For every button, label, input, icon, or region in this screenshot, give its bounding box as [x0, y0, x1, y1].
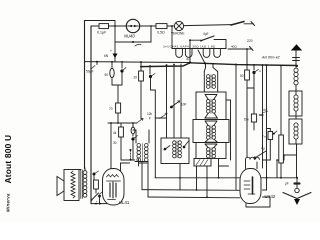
wire x281 bus down	[280, 66, 282, 135]
switch S1 mains	[231, 22, 255, 26]
wire right vertical of top box	[114, 21, 116, 63]
osc coil above IF box	[204, 64, 217, 92]
svg-text:UL41: UL41	[119, 200, 130, 205]
wire x142 from tube area	[130, 159, 135, 161]
speaker LS1	[57, 170, 79, 201]
bracket right of hatched block	[219, 159, 229, 167]
svg-text:0,1µF: 0,1µF	[97, 30, 107, 34]
bus right horizontal	[190, 63, 297, 66]
resistor R5 on x141	[134, 67, 144, 119]
wire top row y26	[91, 25, 127, 27]
tube V1 output UL41	[103, 169, 130, 206]
osc trimmer left	[164, 146, 170, 151]
earth symbol	[283, 193, 311, 206]
wire switch to corner	[190, 40, 226, 49]
rail B y189.5	[142, 162, 240, 191]
label 4n	[262, 108, 268, 113]
capacitor C1 electrolytic on x115	[104, 49, 118, 58]
wire outer top horizontal	[85, 20, 116, 22]
svg-text:σ: σ	[259, 69, 261, 73]
wire x174 bus to osc box	[173, 65, 175, 139]
wire y166	[135, 161, 148, 163]
svg-text:μF: μF	[285, 182, 289, 186]
svg-text:40Ω: 40Ω	[231, 45, 237, 49]
detector arrow above tube 2	[254, 147, 266, 160]
wires IF box to rails	[196, 166, 220, 198]
svg-text:UY42: UY42	[265, 194, 276, 199]
earth electrode circle	[295, 188, 299, 192]
svg-text:3×UCH41 UAF41 30Ω 1kΩ 1.8Ω: 3×UCH41 UAF41 30Ω 1kΩ 1.8Ω	[163, 45, 216, 49]
wire join y85	[112, 85, 122, 103]
tube V2 pin wires	[246, 178, 270, 207]
antenna coil B	[289, 119, 302, 144]
resistor R3	[109, 103, 121, 113]
wire inner left vertical	[90, 26, 92, 204]
capacitor C6 on x253	[252, 65, 261, 114]
wire antenna coil to rail A	[296, 155, 298, 178]
wire x118 to volume line	[117, 113, 119, 123]
svg-text:10F: 10F	[181, 103, 187, 107]
svg-text:4μF: 4μF	[203, 32, 209, 36]
svg-text:6N: 6N	[104, 54, 109, 58]
IF transformer box 3	[196, 143, 226, 159]
label 12k	[147, 112, 167, 121]
tube V1 top pin wires	[110, 122, 129, 171]
node dots on buses	[96, 61, 298, 68]
resistor R8	[94, 180, 99, 193]
wire mains vertical x247	[246, 49, 248, 65]
wire transformer top	[79, 168, 85, 171]
capacitor label at bus left	[86, 62, 97, 74]
heater chain resistor loops	[172, 49, 226, 65]
capacitor C10	[262, 129, 277, 161]
wire x155 down to rail A	[154, 90, 156, 178]
wire x166 bus to osc box	[166, 65, 168, 138]
volume pot track y123	[108, 122, 137, 124]
svg-text:12k: 12k	[147, 112, 153, 116]
rail A y178	[155, 177, 298, 179]
wire outer left vertical	[84, 21, 86, 169]
antenna series capacitor	[293, 58, 300, 61]
coil taps to left	[276, 144, 296, 178]
svg-text:50: 50	[105, 73, 109, 77]
svg-text:F: F	[149, 117, 151, 121]
tube V2 rectifier UY42	[240, 169, 276, 204]
ballast tube U1	[124, 19, 140, 38]
svg-text:NU40: NU40	[124, 34, 135, 39]
speaker field zigzag	[71, 171, 75, 198]
antenna coil A	[289, 66, 302, 119]
lamp LP1	[171, 21, 184, 35]
wire heater return vertical	[150, 26, 152, 42]
wire x155 stub	[155, 117, 166, 119]
svg-text:4μ: 4μ	[261, 147, 265, 151]
svg-text:Minerva: Minerva	[6, 193, 11, 212]
driver transformer T1	[133, 130, 149, 163]
wire x181 bus to osc box	[180, 64, 182, 138]
svg-text:Dm: Dm	[244, 118, 249, 122]
pot wiper arrow	[137, 119, 144, 124]
wire vertical from bus to switch	[189, 40, 191, 62]
wire transformer bottom left	[138, 159, 140, 166]
wire x236 from bus down	[235, 64, 237, 189]
capacitor C7 box	[244, 114, 263, 130]
svg-text:30: 30	[113, 141, 117, 145]
switch S3 tone	[91, 193, 99, 201]
capacitor C2	[105, 62, 115, 85]
node junction at 151,26	[150, 25, 152, 27]
capacitor C3 electrolytic	[120, 62, 126, 85]
svg-text:50μF: 50μF	[86, 70, 94, 74]
IF transformer box 2	[193, 120, 229, 143]
node 247,49	[246, 48, 248, 50]
rail C y196.8	[148, 162, 240, 198]
svg-text:Ant 80m 4Z: Ant 80m 4Z	[261, 56, 280, 60]
wire below osc box	[179, 164, 181, 191]
svg-text:220: 220	[247, 39, 253, 43]
resistor R2	[156, 24, 167, 35]
antenna symbol	[291, 44, 302, 66]
wire busA to busB link	[140, 62, 142, 67]
bottom wire y204	[91, 203, 107, 205]
resistor R1	[97, 24, 109, 35]
IF transformer box 1	[196, 92, 226, 120]
wire lamp vertical x172	[171, 26, 173, 49]
electrolytic C9	[96, 192, 103, 205]
node 172,26	[171, 25, 173, 27]
svg-text:20: 20	[134, 76, 138, 80]
svg-text:4k: 4k	[113, 131, 117, 135]
trimmer arrow on x181	[170, 101, 186, 109]
hatched block bottom	[194, 159, 211, 167]
svg-text:50: 50	[240, 74, 244, 78]
wire y25 to switch	[184, 25, 231, 26]
electrolytic at earth	[285, 178, 300, 188]
svg-text:VERONE: VERONE	[171, 32, 184, 36]
svg-text:0,5Ω: 0,5Ω	[157, 30, 165, 34]
output transformer core	[81, 170, 83, 199]
node dot at 133,42	[132, 41, 141, 46]
svg-text:4μ: 4μ	[186, 57, 190, 61]
wire x266 bus to rail A	[266, 65, 268, 178]
svg-text:70: 70	[109, 107, 113, 111]
resistor R7 on x260	[262, 65, 264, 168]
wire right side of IF cans	[226, 100, 231, 160]
node junction 115,26	[114, 25, 116, 27]
resistor R4	[113, 123, 123, 160]
resistor R6 on x247	[240, 65, 254, 158]
electrolytic C8	[93, 171, 99, 180]
bus A horizontal y62	[85, 61, 191, 64]
wire y26 segment to lamp	[139, 25, 175, 27]
capacitor C4 electrolytic	[113, 123, 138, 160]
heater loop coil above tube 2	[246, 157, 260, 169]
wire y90 into IF box	[151, 89, 156, 91]
wire heater return horizontal y42	[115, 41, 151, 43]
osc trimmer right	[183, 141, 189, 149]
mains lower stub	[228, 45, 253, 51]
svg-text:Atout 800 U: Atout 800 U	[3, 135, 13, 184]
svg-text:+: +	[110, 49, 112, 53]
switch S2 wave change	[200, 32, 214, 42]
wire y160	[121, 159, 130, 161]
oscillator coil box	[161, 138, 189, 164]
electrolytic C5 on x150	[149, 66, 155, 90]
bus B horizontal y66	[141, 63, 190, 67]
output transformer winding	[83, 171, 87, 198]
